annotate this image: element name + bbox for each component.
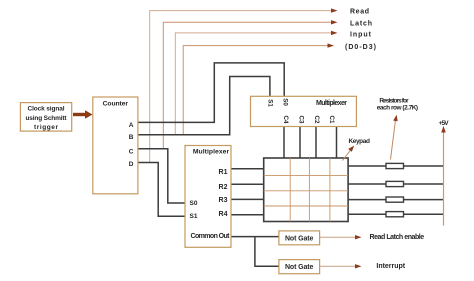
svg-text:S0: S0 xyxy=(190,200,198,207)
svg-text:C4: C4 xyxy=(282,116,289,124)
svg-text:R3: R3 xyxy=(219,197,228,204)
svg-text:R4: R4 xyxy=(219,211,228,218)
svg-text:Not Gate: Not Gate xyxy=(285,235,314,242)
svg-text:C: C xyxy=(129,148,134,155)
svg-text:S1: S1 xyxy=(267,99,274,107)
svg-text:Keypad: Keypad xyxy=(348,138,370,145)
svg-text:+5V: +5V xyxy=(439,120,450,127)
svg-text:Read Latch enable: Read Latch enable xyxy=(370,234,425,241)
svg-text:C2: C2 xyxy=(313,116,320,124)
svg-text:Latch: Latch xyxy=(350,21,372,28)
svg-text:R2: R2 xyxy=(219,184,228,191)
svg-text:D: D xyxy=(129,161,134,168)
svg-text:S1: S1 xyxy=(190,213,198,220)
svg-text:B: B xyxy=(129,134,134,141)
svg-text:trigger: trigger xyxy=(34,124,58,131)
svg-text:Common Out: Common Out xyxy=(191,233,231,240)
svg-text:C3: C3 xyxy=(298,116,305,124)
svg-text:Not Gate: Not Gate xyxy=(285,264,314,271)
svg-text:Multiplexer: Multiplexer xyxy=(193,149,230,156)
svg-text:C1: C1 xyxy=(328,116,335,124)
svg-text:Resistors for: Resistors for xyxy=(379,97,409,104)
svg-text:S0: S0 xyxy=(282,98,289,106)
svg-text:Multiplexer: Multiplexer xyxy=(316,100,347,107)
svg-text:Interrupt: Interrupt xyxy=(376,263,405,270)
svg-text:using Schmitt: using Schmitt xyxy=(26,115,68,122)
svg-text:Clock signal: Clock signal xyxy=(28,105,65,112)
svg-text:Read: Read xyxy=(350,9,369,16)
svg-text:each row (2.7K): each row (2.7K) xyxy=(377,105,418,112)
svg-text:(D0-D3): (D0-D3) xyxy=(345,44,376,51)
svg-text:Counter: Counter xyxy=(103,101,129,108)
svg-text:A: A xyxy=(129,122,134,129)
svg-text:Input: Input xyxy=(350,32,372,39)
svg-text:R1: R1 xyxy=(219,169,228,176)
